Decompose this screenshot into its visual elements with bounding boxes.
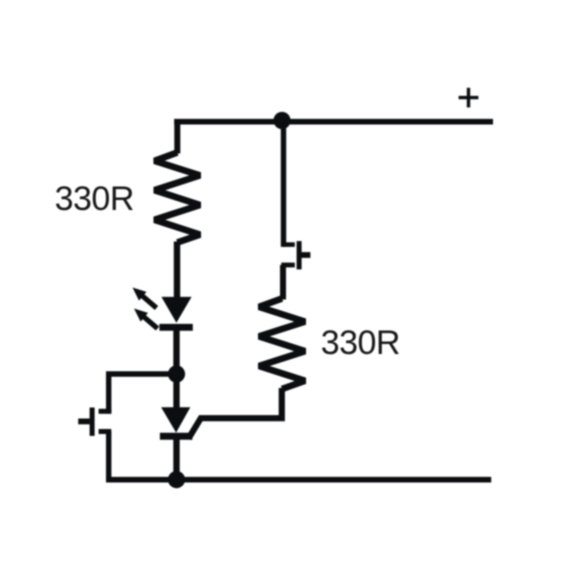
wire junction to thyristor [173,374,179,409]
push switch S1 upper contact stub [281,242,295,247]
LED D1 emission arrow lower [134,309,159,331]
resistor R1 330R zigzag [155,153,201,243]
push switch S1 lower contact stub [281,263,295,268]
wire left branch drop from rail [174,119,180,154]
LED D1 emission arrow upper [133,288,159,311]
resistor R2 330R zigzag [259,299,305,390]
push switch S2 upper contact stub [99,409,112,414]
thyristor Q1 anode triangle [162,408,190,432]
wire LED to junction [173,327,179,376]
thyristor Q1 gate wire to resistor R2 [189,388,282,439]
wire bottom return rail [106,477,491,483]
push switch S1 movable bar [297,241,302,269]
push switch S1 actuator stem [302,252,311,258]
junction dot top (positive rail node) [273,112,290,129]
label 330R right (value of R2) [321,324,400,363]
junction dot bottom (node K) [168,471,185,488]
push switch S2 lower contact stub [99,429,112,434]
LED D1 cathode bar [159,324,192,331]
wire junction to push switch S2 [109,374,179,414]
wire push switch S1 to resistor R2 [280,265,286,300]
node + (positive supply marker) [459,88,479,108]
LED D1 anode triangle [162,297,190,321]
junction dot middle (node A) [168,365,185,382]
thyristor Q1 cathode bar [160,433,193,440]
push switch S2 actuator stem [78,418,90,424]
label 330R left (value of R1) [55,180,134,219]
wire rail to push switch S1 [281,121,286,247]
wire push switch S2 to bottom rail [106,432,111,483]
push switch S2 movable bar [90,408,95,436]
wire resistor R1 to LED [174,242,180,300]
wire thyristor to bottom rail [173,439,179,481]
wire top positive rail [174,119,493,125]
